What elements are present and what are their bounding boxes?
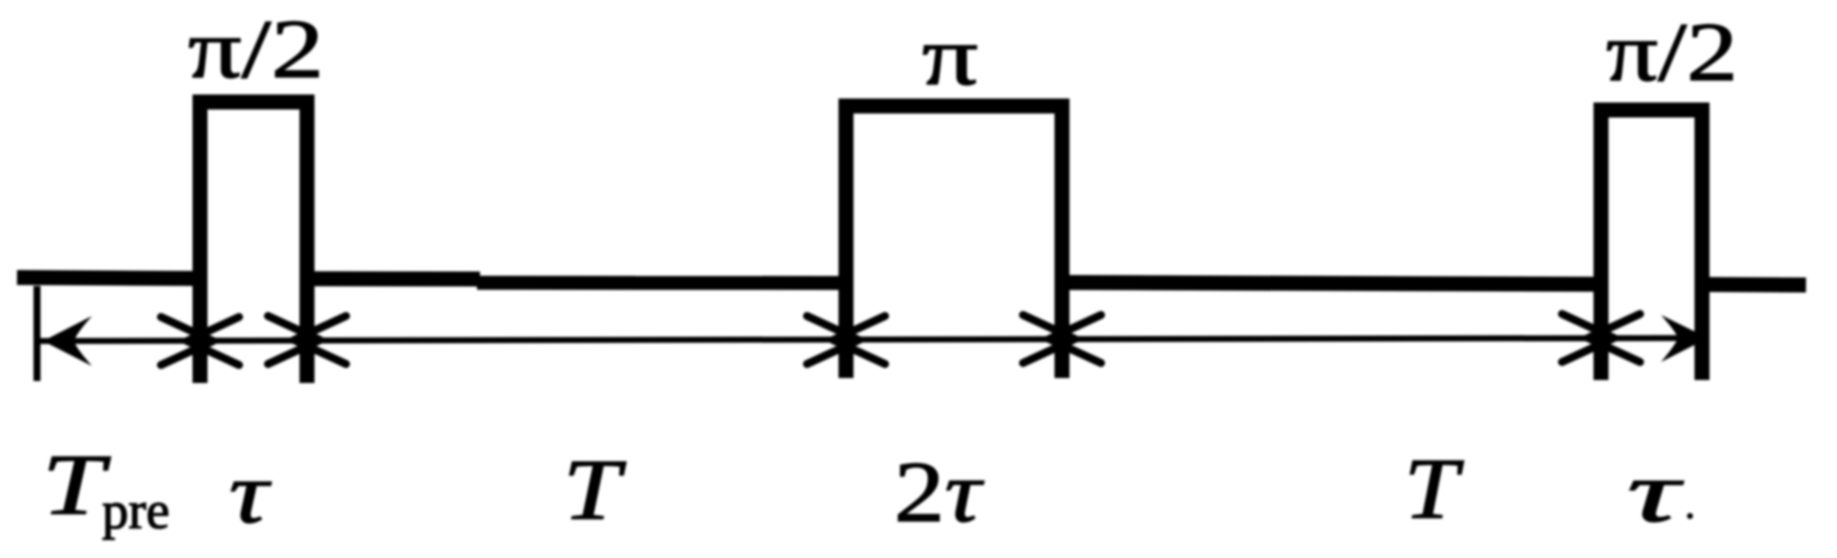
svg-text:π: π [922,10,978,103]
svg-text:pre: pre [102,482,170,540]
svg-text:π/2: π/2 [188,3,324,96]
svg-text:τ: τ [1627,443,1684,540]
svg-text:π/2: π/2 [1606,6,1738,99]
svg-text:T: T [563,441,627,538]
svg-text:T: T [42,436,111,533]
svg-text:2τ: 2τ [894,443,984,540]
svg-text:τ: τ [229,444,272,541]
svg-text:T: T [1404,440,1464,537]
